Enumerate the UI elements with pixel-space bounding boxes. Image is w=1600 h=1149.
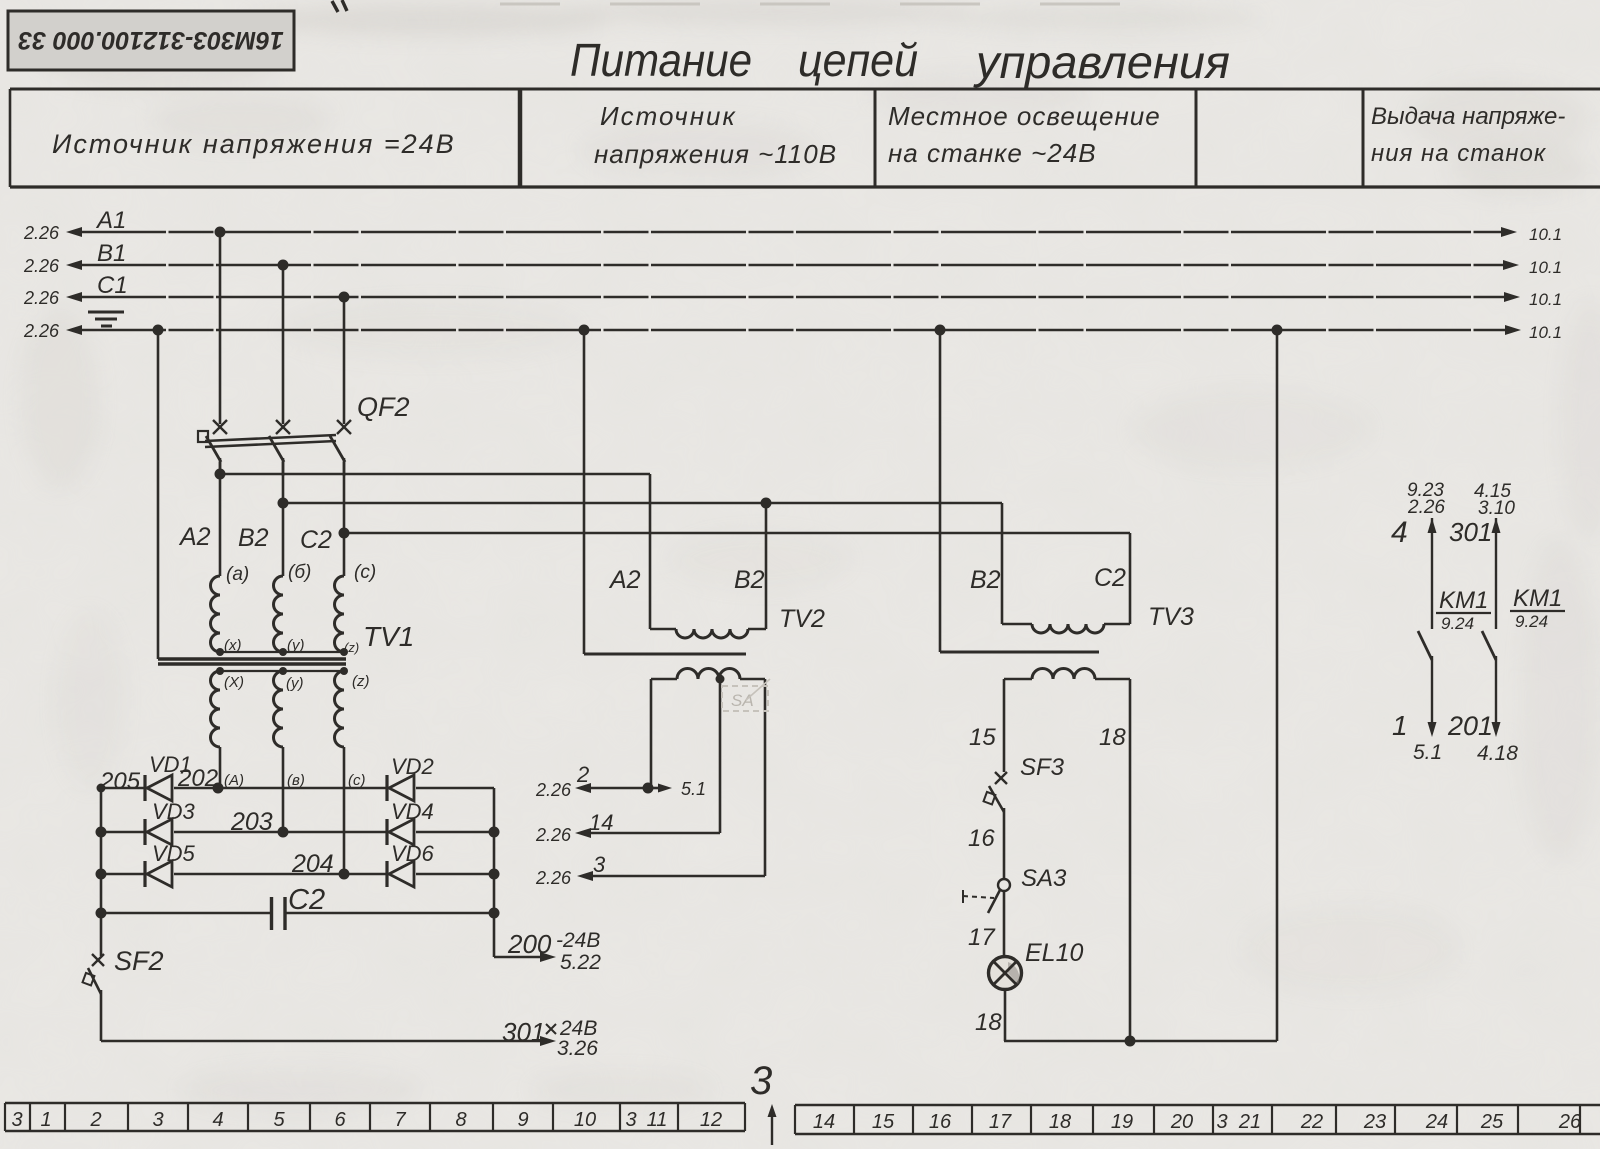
svg-text:4: 4: [1391, 516, 1408, 549]
svg-text:21: 21: [1238, 1111, 1261, 1133]
svg-text:C2: C2: [300, 526, 332, 554]
svg-text:C2: C2: [1094, 564, 1126, 592]
svg-text:10: 10: [574, 1109, 596, 1131]
svg-text:(у): (у): [286, 675, 304, 692]
svg-text:2.26: 2.26: [23, 321, 60, 341]
svg-text:4: 4: [212, 1109, 223, 1131]
svg-text:KM1: KM1: [1513, 585, 1562, 612]
svg-text:3: 3: [750, 1059, 772, 1103]
svg-text:17: 17: [989, 1111, 1012, 1133]
svg-text:1: 1: [1392, 710, 1408, 741]
svg-text:(A): (A): [224, 772, 244, 789]
svg-text:200: 200: [507, 929, 552, 959]
svg-text:16: 16: [968, 825, 995, 852]
svg-text:5.22: 5.22: [560, 951, 601, 974]
svg-text:10.1: 10.1: [1529, 290, 1562, 309]
svg-text:цепей: цепей: [798, 34, 918, 86]
svg-text:EL10: EL10: [1025, 939, 1083, 967]
svg-text:(X): (X): [224, 674, 244, 691]
svg-text:18: 18: [975, 1009, 1002, 1036]
svg-text:14: 14: [589, 810, 613, 835]
svg-text:205: 205: [99, 768, 141, 795]
svg-text:3: 3: [11, 1109, 22, 1131]
svg-text:301: 301: [502, 1017, 545, 1047]
svg-text:203: 203: [230, 808, 273, 836]
svg-text:26: 26: [1558, 1111, 1582, 1133]
svg-text:ния на станок: ния на станок: [1371, 140, 1547, 167]
svg-text:1: 1: [40, 1109, 51, 1131]
svg-text:Источник: Источник: [600, 101, 737, 131]
svg-text:A2: A2: [178, 523, 211, 551]
svg-text:14: 14: [813, 1111, 835, 1133]
svg-text:9.24: 9.24: [1441, 614, 1474, 633]
svg-text:10.1: 10.1: [1529, 258, 1562, 277]
svg-text:3.26: 3.26: [557, 1037, 598, 1060]
svg-text:5: 5: [273, 1109, 285, 1131]
svg-text:22: 22: [1300, 1111, 1323, 1133]
svg-text:10.1: 10.1: [1529, 323, 1562, 342]
svg-text:TV2: TV2: [779, 605, 825, 633]
svg-text:2.26: 2.26: [23, 223, 60, 243]
svg-text:A1: A1: [95, 207, 126, 234]
svg-text:2.26: 2.26: [535, 825, 572, 845]
svg-text:управления: управления: [973, 36, 1230, 88]
svg-text:3: 3: [593, 852, 606, 877]
svg-text:2.26: 2.26: [1407, 497, 1445, 518]
svg-text:(a): (a): [226, 564, 249, 585]
svg-text:B2: B2: [734, 566, 765, 594]
svg-text:4.18: 4.18: [1477, 742, 1518, 765]
svg-text:SA3: SA3: [1021, 865, 1067, 892]
svg-text:202: 202: [177, 765, 218, 792]
svg-text:25: 25: [1480, 1111, 1504, 1133]
svg-text:-24В: -24В: [556, 929, 600, 952]
svg-text:2: 2: [89, 1109, 101, 1131]
svg-text:9.24: 9.24: [1515, 612, 1548, 631]
svg-text:Питание: Питание: [570, 34, 752, 86]
svg-text:204: 204: [291, 850, 334, 878]
svg-text:16М303-312100.000 33: 16М303-312100.000 33: [18, 26, 284, 54]
svg-text:KM1: KM1: [1439, 587, 1488, 614]
svg-text:3: 3: [1216, 1111, 1227, 1133]
svg-text:(z): (z): [352, 673, 370, 690]
svg-text:3: 3: [152, 1109, 163, 1131]
svg-text:A2: A2: [608, 566, 641, 594]
svg-text:2.26: 2.26: [535, 868, 572, 888]
svg-text:12: 12: [700, 1109, 722, 1131]
svg-text:C2: C2: [288, 884, 325, 916]
svg-text:301: 301: [1449, 517, 1492, 547]
svg-text:2.26: 2.26: [535, 780, 572, 800]
svg-text:Местное освещение: Местное освещение: [888, 101, 1161, 131]
svg-text:23: 23: [1363, 1111, 1386, 1133]
svg-text:15: 15: [872, 1111, 895, 1133]
svg-text:17: 17: [968, 924, 996, 951]
svg-text:6: 6: [334, 1109, 346, 1131]
svg-text:15: 15: [969, 724, 996, 751]
svg-text:11: 11: [647, 1109, 668, 1131]
svg-text:VD5: VD5: [152, 841, 196, 866]
svg-text:5.1: 5.1: [681, 779, 706, 799]
svg-text:5.1: 5.1: [1413, 741, 1442, 764]
svg-text:2.26: 2.26: [23, 288, 60, 308]
svg-text:8: 8: [455, 1109, 466, 1131]
svg-text:B2: B2: [970, 566, 1001, 594]
svg-text:19: 19: [1111, 1111, 1133, 1133]
svg-text:18: 18: [1099, 724, 1126, 751]
svg-text:3.10: 3.10: [1478, 498, 1515, 519]
svg-text:VD2: VD2: [391, 754, 434, 779]
svg-text:VD4: VD4: [391, 799, 434, 824]
svg-text:9: 9: [517, 1109, 528, 1131]
svg-text:18: 18: [1049, 1111, 1071, 1133]
svg-text:TV1: TV1: [363, 621, 414, 652]
svg-text:Источник напряжения =24В: Источник напряжения =24В: [52, 129, 456, 159]
svg-text:B2: B2: [238, 524, 269, 552]
svg-text:2.26: 2.26: [23, 256, 60, 276]
svg-text:2: 2: [576, 762, 589, 787]
svg-text:201: 201: [1447, 711, 1493, 741]
svg-text:24: 24: [1425, 1111, 1448, 1133]
svg-text:VD3: VD3: [152, 799, 196, 824]
svg-text:7: 7: [394, 1109, 406, 1131]
svg-text:10.1: 10.1: [1529, 225, 1562, 244]
svg-text:(c): (c): [354, 562, 376, 583]
svg-text:(б): (б): [288, 562, 311, 583]
svg-text:TV3: TV3: [1148, 603, 1194, 631]
svg-text:VD6: VD6: [391, 841, 435, 866]
svg-text:на станке ~24В: на станке ~24В: [888, 138, 1097, 168]
svg-text:напряжения ~110В: напряжения ~110В: [594, 139, 837, 169]
svg-text:SF3: SF3: [1020, 754, 1065, 781]
svg-text:SA: SA: [731, 691, 754, 710]
svg-text:QF2: QF2: [357, 392, 410, 422]
svg-text:B1: B1: [97, 240, 126, 267]
svg-text:SF2: SF2: [114, 946, 164, 976]
svg-text:(c): (c): [348, 772, 366, 789]
svg-text:16: 16: [929, 1111, 952, 1133]
svg-text:C1: C1: [97, 272, 128, 299]
svg-text:(в): (в): [287, 772, 305, 789]
svg-text:3: 3: [625, 1109, 636, 1131]
svg-text:Выдача напряже-: Выдача напряже-: [1371, 103, 1565, 130]
svg-text:20: 20: [1170, 1111, 1193, 1133]
